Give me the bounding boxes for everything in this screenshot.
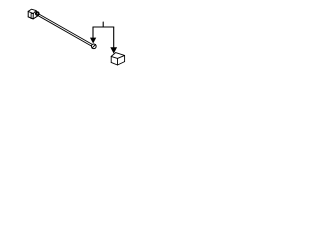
- rod upper line: [39, 14, 92, 44]
- arrow 2 head: [110, 47, 117, 53]
- rod lower line: [38, 16, 91, 46]
- cube top face: [111, 53, 124, 59]
- plug top face: [28, 9, 36, 13]
- plug right face right edge: [37, 11, 38, 16]
- plug ring: [36, 12, 39, 15]
- rod tip slash: [92, 45, 96, 49]
- plug slot: [31, 14, 33, 19]
- cube vertical edges: [111, 55, 124, 65]
- tick mark: [102, 22, 104, 27]
- plug front-right edge: [32, 14, 34, 19]
- arrow 2 shaft: [113, 27, 115, 48]
- arrow 1 shaft: [92, 27, 94, 38]
- cube bottom edges: [111, 62, 124, 65]
- plug right face edge: [33, 16, 37, 19]
- arrow 1 head: [90, 38, 96, 44]
- plug left edge: [27, 11, 29, 17]
- rod tip circle: [91, 44, 96, 49]
- elbow horizontal line: [93, 26, 114, 28]
- plug bottom edge: [28, 17, 33, 19]
